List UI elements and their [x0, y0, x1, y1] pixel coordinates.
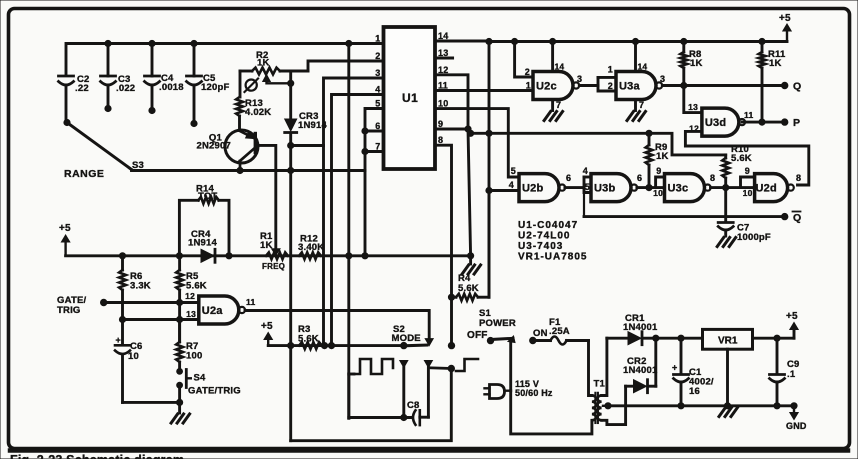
svg-text:U1: U1 [402, 91, 418, 105]
svg-text:U2b: U2b [522, 183, 543, 195]
svg-text:1K: 1K [257, 58, 270, 69]
capacitor C8 [349, 416, 411, 419]
svg-text:8: 8 [438, 135, 443, 145]
svg-text:OFF: OFF [467, 330, 488, 341]
terminal GND [793, 406, 795, 417]
transistor Q1 2N2907 [225, 130, 258, 163]
node gnd terminal [791, 403, 797, 409]
svg-text:1K: 1K [769, 58, 782, 69]
svg-text:1000pF: 1000pF [737, 232, 771, 243]
wire U1 pin 12 to reset column [435, 75, 468, 131]
wiper arrow R1 [272, 249, 280, 255]
svg-text:16: 16 [689, 386, 700, 397]
IC U1 CD4047 body [384, 27, 436, 169]
node S3 contact C3 [105, 105, 111, 111]
node reset rail junction [486, 130, 492, 136]
node pin1 branch [346, 40, 352, 46]
svg-text:.22: .22 [75, 83, 89, 94]
node pins567 timing junction [362, 253, 368, 259]
svg-text:1N4001: 1N4001 [623, 322, 658, 333]
svg-text:5: 5 [585, 182, 590, 192]
svg-text:2N2907: 2N2907 [197, 141, 231, 152]
gate U3c [665, 174, 705, 202]
node R2 wiper junction [288, 80, 294, 86]
diode CR1 1N4001 [607, 337, 628, 340]
svg-text:U2c: U2c [536, 81, 557, 93]
capacitor C2 [59, 75, 74, 78]
pulse symbol [456, 359, 478, 371]
node pin 7 junction [362, 148, 368, 154]
wire R2 left to R13 [239, 71, 242, 97]
gate U2c [533, 72, 573, 100]
svg-text:TRIG: TRIG [57, 305, 81, 316]
svg-text:5: 5 [375, 99, 380, 109]
wire Qbar drop [583, 188, 585, 217]
wire CR2 to DC bus [654, 338, 657, 386]
ground C7 [717, 238, 724, 247]
wire timing row [66, 254, 471, 257]
wire U1 pin 13 stub [435, 57, 453, 60]
wire CR3 to U1 pin 3 column [291, 144, 324, 147]
svg-text:S4: S4 [194, 373, 207, 384]
terminal Q [782, 82, 788, 88]
node C3 top [105, 40, 111, 46]
node S4 ground junction [177, 399, 183, 405]
svg-text:4: 4 [375, 85, 380, 95]
resistor R8 1K [682, 42, 685, 53]
svg-text:12: 12 [185, 291, 195, 301]
wire secondary bottom loop to CR2 [602, 386, 626, 424]
svg-text:U3a: U3a [619, 81, 640, 93]
node CR4 anode junction [176, 253, 182, 259]
wire U1 pin 10 to U2b pin 5 [435, 109, 519, 177]
wire Qbar line [584, 215, 785, 218]
node pin4 mode junction [328, 343, 334, 349]
wire U1 pin 11 to U2c pin 1 [435, 89, 533, 92]
node CR3 cathode junction [288, 142, 294, 148]
wire R2 to U1 pin 2 [308, 61, 384, 71]
svg-text:6: 6 [637, 173, 642, 183]
svg-text:+5: +5 [59, 223, 71, 234]
svg-text:6: 6 [375, 121, 380, 131]
node C1 top junction [678, 335, 684, 341]
svg-text:C8: C8 [407, 400, 420, 411]
trimmer symbol R2 [246, 80, 257, 91]
svg-text:1: 1 [608, 65, 613, 75]
node C9 top junction [774, 335, 780, 341]
node C8 left junction [401, 414, 407, 420]
node rail U2b4 branch [486, 38, 492, 44]
wire U1 pin 1 column [347, 44, 350, 419]
svg-text:14: 14 [638, 62, 648, 72]
wire U2c pin 14 [551, 42, 554, 72]
resistor R13 [236, 97, 243, 116]
svg-text:1K: 1K [690, 58, 703, 69]
wire U2d pin 9 jog [741, 177, 755, 188]
svg-text:2: 2 [375, 51, 380, 61]
node T1 center tap [605, 403, 611, 409]
svg-text:U3-7403: U3-7403 [518, 241, 563, 252]
wire S1 common down to plug [509, 340, 512, 391]
capacitor C5 [193, 44, 196, 77]
svg-text:1N914: 1N914 [188, 238, 218, 249]
node reset R9 junction [646, 130, 652, 136]
wire secondary top to CR1 [602, 338, 607, 395]
capacitor C4 [151, 44, 154, 77]
svg-text:.0018: .0018 [159, 82, 184, 93]
wire U1 pin 7 stub [365, 150, 384, 153]
svg-text:.022: .022 [116, 83, 135, 94]
svg-text:12: 12 [438, 65, 448, 75]
node pin8 R4 junction [448, 294, 454, 300]
terminal Qbar [782, 213, 788, 219]
svg-text:7: 7 [375, 142, 380, 152]
node CR3 range junction [288, 167, 294, 173]
wire U2b out to U3b [565, 186, 584, 189]
diode CR4 1N914 [201, 249, 214, 262]
svg-text:Q: Q [793, 81, 801, 93]
ground S4 [178, 402, 181, 413]
node pin3 mode junction [321, 343, 327, 349]
svg-text:P: P [793, 117, 800, 129]
transformer T1 secondary coil [597, 396, 601, 421]
contact S2 pole2 left [400, 361, 408, 368]
svg-text:RANGE: RANGE [64, 168, 104, 180]
wire U2b pin 4 stub [489, 189, 519, 192]
wire ground rail [608, 404, 794, 407]
svg-text:1: 1 [375, 34, 380, 44]
node R5 pin13 junction [177, 316, 183, 322]
gate U3b [591, 174, 631, 202]
svg-text:VR1-UA7805: VR1-UA7805 [518, 252, 587, 263]
node timing gnd junction [468, 253, 474, 259]
svg-text:3: 3 [660, 74, 665, 84]
wire S3 to U1 pins 5-7 column [132, 169, 366, 172]
node R6 top [119, 253, 125, 259]
resistor R10 5.6K [724, 155, 727, 158]
svg-text:4: 4 [509, 180, 514, 190]
svg-text:10: 10 [743, 188, 753, 198]
wire U3d out to P [742, 121, 785, 124]
node rail U3a14 branch [632, 38, 638, 44]
wire C6 bottom to ground [123, 401, 180, 404]
svg-text:3.3K: 3.3K [130, 281, 151, 292]
svg-text:+: + [116, 335, 121, 345]
gate U3a [616, 72, 656, 100]
svg-text:3.40K: 3.40K [298, 242, 324, 253]
wire U3a pin 14 [634, 42, 637, 72]
svg-text:U2a: U2a [202, 305, 223, 317]
wire U1 pin 14 to +5 rail [435, 40, 489, 43]
svg-text:120pF: 120pF [201, 82, 229, 93]
switch S2 pole2 common [448, 365, 454, 371]
svg-text:10: 10 [128, 351, 139, 362]
wire U3d pin 12 staircase to U2d out [685, 131, 808, 185]
svg-text:GND: GND [786, 421, 807, 431]
node pin 9 junction [465, 126, 471, 132]
node R5 bottom junction [177, 299, 183, 305]
ground U3a pin 7 [627, 112, 634, 121]
node C5 top [191, 40, 197, 46]
svg-text:4.02K: 4.02K [245, 107, 271, 118]
wire U1 pin 4 column [332, 95, 384, 344]
capacitor C3 [107, 44, 110, 77]
svg-text:5: 5 [511, 166, 516, 176]
squarewave symbol [354, 359, 393, 374]
svg-text:10: 10 [653, 188, 663, 198]
node S3 contact C2 [64, 119, 70, 125]
wire Q1 base to R1 wiper [256, 145, 276, 249]
node rail U2c2 branch [511, 38, 517, 44]
ground U2c pin 7 [544, 112, 551, 121]
resistor R14 TOT [179, 200, 198, 256]
switch S4 [177, 369, 183, 375]
fuse F1 [530, 337, 536, 343]
resistor R3 5.6K [299, 342, 322, 349]
svg-text:+: + [672, 363, 677, 373]
switch S3 wiper [67, 123, 132, 170]
svg-text:+5: +5 [261, 321, 273, 332]
svg-text:FREQ: FREQ [262, 262, 285, 271]
resistor R12 3.40K [299, 252, 321, 259]
node Q R8 junction [681, 82, 687, 88]
power +5 output [793, 330, 796, 338]
svg-text:F1: F1 [549, 317, 561, 328]
wire U1 pin 9 stub [435, 128, 468, 131]
power +5 top right [786, 27, 788, 42]
wire reset column down [468, 129, 471, 256]
svg-text:9: 9 [438, 119, 443, 129]
wire U1 pin 3 column [324, 78, 384, 343]
wire U2c pin 2 from rail [515, 42, 533, 78]
svg-text:14: 14 [555, 62, 565, 72]
wire U1 pin 6 stub [365, 130, 384, 133]
wire squarewave leg [347, 374, 350, 418]
svg-text:Fig. 2-23 Schematic diagram: Fig. 2-23 Schematic diagram [10, 453, 184, 459]
node U2b pin4 junction [486, 187, 492, 193]
svg-text:1N4001: 1N4001 [623, 365, 658, 376]
node CR3 mode junction [288, 343, 294, 349]
svg-text:T1: T1 [594, 379, 606, 390]
ground timing row [469, 256, 472, 264]
wire plug bottom [511, 391, 592, 434]
svg-text:5.6K: 5.6K [298, 334, 319, 345]
wire U1 pins 5-6-7 bracket [365, 109, 384, 256]
wire Q line [662, 84, 784, 87]
svg-text:U3d: U3d [705, 117, 726, 129]
wiper arrow R2 [263, 75, 271, 82]
svg-text:U1-C04047: U1-C04047 [518, 220, 578, 231]
wire U2a out to S2 wiper [245, 311, 429, 341]
svg-text:2: 2 [525, 67, 530, 77]
svg-text:U2-74L00: U2-74L00 [518, 231, 570, 242]
wire U2c pin 7 ground stub [551, 100, 554, 111]
wire CR3 column down [289, 146, 292, 441]
gate U3d [702, 108, 739, 136]
contact S2 pole2 right [424, 361, 432, 368]
gate U2a [199, 296, 239, 324]
svg-text:U3b: U3b [594, 183, 615, 195]
wire U3b out to U3c [637, 186, 665, 189]
plug 115V [490, 385, 505, 399]
svg-text:9: 9 [656, 166, 661, 176]
node rail R11 branch [759, 38, 765, 44]
svg-text:14: 14 [438, 31, 448, 41]
resistor R9 1K [648, 133, 651, 145]
wire R4 right leg [488, 191, 491, 298]
svg-text:+5: +5 [786, 311, 798, 322]
resistor R1 1K (FREQ pot) [266, 252, 288, 259]
svg-text:5.6K: 5.6K [731, 153, 752, 164]
svg-text:4: 4 [583, 166, 588, 176]
wire U3a pin 7 ground stub [634, 100, 637, 111]
gate U2b [519, 174, 559, 202]
svg-text:9: 9 [745, 166, 750, 176]
switch S2 right contact [448, 342, 454, 348]
resistor R2 [240, 70, 252, 73]
wire reset line [471, 133, 726, 155]
svg-text:13: 13 [438, 48, 448, 58]
node CR4 cathode junction [226, 253, 232, 259]
svg-text:1K: 1K [260, 240, 273, 251]
svg-text:.1: .1 [787, 369, 796, 380]
svg-text:50/60 Hz: 50/60 Hz [515, 388, 553, 398]
resistor R4 5.6K [452, 296, 457, 299]
wire R13 to Q1 [238, 116, 241, 131]
ground VR1 [719, 408, 726, 417]
node R9 bottom junction [646, 185, 652, 191]
svg-text:GATE/TRIG: GATE/TRIG [188, 386, 241, 397]
svg-text:7: 7 [556, 100, 561, 110]
node reset pin12 junction [468, 130, 474, 136]
wire U3c out to U2d [711, 186, 755, 189]
svg-text:11: 11 [246, 297, 255, 307]
node C9 gnd [774, 403, 780, 409]
wire U1 pin 8 column [435, 145, 452, 343]
svg-text:11: 11 [744, 110, 753, 120]
wire VR1 gnd [726, 349, 729, 406]
wire mode row [268, 344, 404, 347]
svg-text:13: 13 [186, 309, 196, 319]
wire pole2 common down [291, 369, 452, 441]
wire DC bus to VR1 [656, 337, 703, 340]
node pin1 timing junction [346, 253, 352, 259]
wire VR1 out [753, 337, 795, 340]
svg-text:U2d: U2d [756, 183, 777, 195]
wire U3c pin 9 jog [656, 177, 665, 188]
wire F1 to T1 primary [589, 341, 592, 396]
diode CR3 1N914 [289, 71, 292, 119]
node Q1 emitter junction [237, 167, 243, 173]
svg-text:5.6K: 5.6K [186, 281, 207, 292]
node VR1 gnd [724, 403, 730, 409]
svg-text:7: 7 [639, 100, 644, 110]
node S3 contact C4 [149, 107, 155, 113]
svg-text:100: 100 [186, 351, 202, 362]
svg-text:U3c: U3c [668, 183, 689, 195]
switch S1 [487, 337, 493, 343]
svg-text:11: 11 [438, 81, 448, 91]
terminal P [782, 119, 788, 125]
node C1 gnd [678, 403, 684, 409]
node rail R8 branch [681, 38, 687, 44]
svg-text:8: 8 [710, 173, 715, 183]
svg-text:POWER: POWER [479, 318, 516, 329]
wire rail to U2b pin 4 [488, 42, 491, 298]
node rail U2c14 branch [550, 38, 556, 44]
capacitor C6 10 [121, 320, 124, 345]
node R6 pin13 junction [119, 316, 125, 322]
transformer T1 primary coil [592, 396, 596, 421]
resistor R6 3.3K [121, 256, 124, 270]
node R10 bottom junction [723, 185, 729, 191]
svg-text:10: 10 [438, 99, 448, 109]
capacitor C1 4002/16 [680, 338, 683, 373]
switch S2 wiper blade [404, 344, 427, 348]
svg-text:3: 3 [577, 74, 582, 84]
resistor R11 1K [761, 42, 764, 53]
diode CR2 1N4001 [626, 385, 634, 388]
svg-text:VR1: VR1 [718, 336, 738, 347]
svg-text:6: 6 [566, 173, 571, 183]
wire U2c out to U3a inputs [579, 84, 598, 87]
wire gate trig line [104, 301, 199, 304]
node P R11 junction [759, 119, 765, 125]
svg-text:3: 3 [375, 68, 380, 78]
capacitor C7 1000pF [724, 188, 727, 221]
node CR1 CR2 junction [653, 335, 659, 341]
wire +5 rail top right [489, 40, 787, 43]
resistor R7 100 [178, 320, 181, 343]
switch S2 left contact [401, 342, 407, 348]
capacitor C9 .1 [776, 338, 779, 373]
regulator VR1 [703, 329, 753, 349]
node S3 contact C5 [191, 120, 197, 126]
svg-text:2: 2 [608, 81, 613, 91]
transformer T1 core [594, 393, 596, 423]
gate U2d [755, 174, 788, 202]
resistor R5 5.6K [178, 256, 181, 270]
wire top rail left (caps to U1 pin 1) [66, 44, 384, 76]
svg-text:1: 1 [526, 81, 531, 91]
svg-text:5.6K: 5.6K [458, 283, 479, 294]
node pin 6 junction [362, 128, 368, 134]
svg-text:ON: ON [533, 328, 548, 339]
wire pin 13 line [123, 318, 199, 321]
svg-text:MODE: MODE [392, 333, 421, 344]
svg-text:13: 13 [688, 102, 698, 112]
svg-text:Q: Q [793, 212, 801, 224]
node C4 top [149, 40, 155, 46]
svg-text:TOT: TOT [198, 191, 217, 202]
terminal GATE TRIG [101, 299, 107, 305]
svg-text:8: 8 [796, 173, 801, 183]
wire U3d pin 13 [684, 86, 702, 113]
svg-text:1K: 1K [656, 151, 669, 162]
svg-text:+5: +5 [779, 13, 791, 24]
